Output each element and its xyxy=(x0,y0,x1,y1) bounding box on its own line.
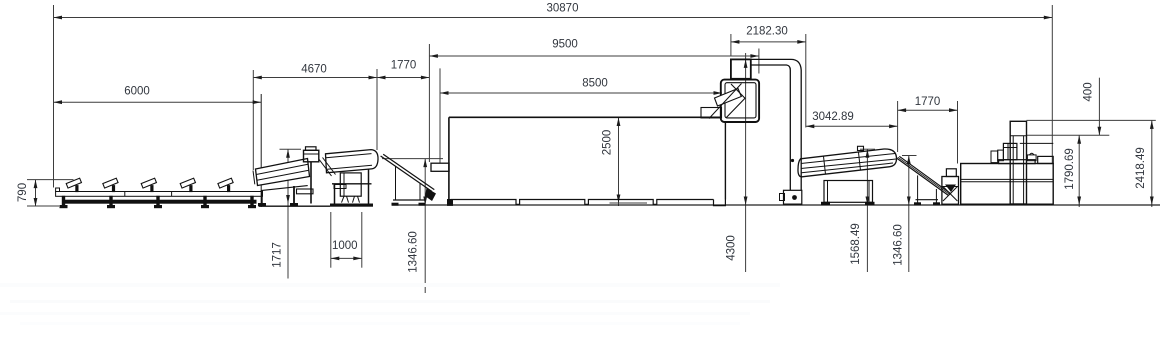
extruder frame rail xyxy=(332,183,372,185)
extension shared 4670/1770 xyxy=(376,69,378,150)
dimension 30870 overall length xyxy=(54,17,1053,19)
dryer right wall xyxy=(724,122,726,200)
left conveyor leg 5 xyxy=(251,196,253,205)
svg-text:1346.60: 1346.60 xyxy=(893,224,905,266)
extension 2182 right xyxy=(805,34,807,128)
hopper motor box xyxy=(304,150,319,162)
motor small box left xyxy=(998,150,1004,161)
extruder barrel inner top line xyxy=(326,154,372,158)
belt2 frame rail xyxy=(916,199,939,201)
feeder sloped sub-rail xyxy=(261,186,308,191)
feeder belt inner line 2 xyxy=(256,164,308,174)
tick 1717 top xyxy=(280,148,302,150)
dryer inlet box xyxy=(431,163,449,171)
drum support inner legs xyxy=(827,181,829,203)
duct bottom box xyxy=(784,190,802,204)
svg-text:6000: 6000 xyxy=(124,86,150,98)
output belt line 1 xyxy=(381,156,432,192)
feeder base feet xyxy=(259,204,266,206)
svg-text:1770: 1770 xyxy=(915,96,941,108)
drum feet xyxy=(822,202,830,204)
feeder top bracket tray xyxy=(297,189,314,194)
svg-text:4670: 4670 xyxy=(301,64,327,76)
svg-text:1346.60: 1346.60 xyxy=(408,231,420,273)
hopper motor inner line xyxy=(304,153,319,155)
duct riser xyxy=(731,59,751,78)
chute spout quad xyxy=(715,89,742,107)
left conveyor plate seams xyxy=(124,192,126,197)
extruder barrel xyxy=(326,150,379,173)
extension 2182 left xyxy=(730,34,732,56)
nozzle bracket 3 xyxy=(141,178,156,188)
feeder base rail xyxy=(259,205,330,207)
nozzle bracket 1 xyxy=(66,178,81,188)
output belt line 2 xyxy=(383,154,434,189)
dimension 400 xyxy=(1098,78,1100,136)
extruder frame leg left xyxy=(334,184,336,204)
tick 2500 bottom xyxy=(610,202,648,204)
output belt frame rail xyxy=(393,199,425,201)
svg-text:1790.69: 1790.69 xyxy=(1064,148,1076,190)
svg-text:1000: 1000 xyxy=(332,240,358,252)
right small motor dome xyxy=(1030,153,1035,155)
hopper motor box top xyxy=(306,147,317,151)
output belt discharge head dark xyxy=(425,188,436,201)
tick 1346a top xyxy=(382,158,443,160)
flavor column xyxy=(1010,121,1026,204)
cooling discharge belt line 2 xyxy=(899,156,951,194)
extension 8500 left xyxy=(439,68,441,163)
extension 4670 left xyxy=(252,70,254,170)
svg-text:1568.49: 1568.49 xyxy=(850,223,862,265)
cabinet foot left xyxy=(342,196,349,202)
cooling discharge belt hatch xyxy=(898,157,950,194)
output belt frame vline 2 xyxy=(419,183,421,200)
elevator2 inner hline xyxy=(942,186,959,188)
nozzle bracket 2 xyxy=(103,178,118,188)
hopper support pole xyxy=(310,162,312,204)
left conveyor bottom rail thick xyxy=(63,200,256,203)
duct sensor dot xyxy=(791,159,794,162)
drum seam 2 xyxy=(859,153,861,171)
duct bottom dot xyxy=(792,195,797,200)
elevator2 box xyxy=(942,177,959,205)
dimension 1568.49 xyxy=(866,149,868,272)
cabinet foot right xyxy=(353,196,360,202)
drum top small box xyxy=(858,146,864,150)
dimension 2418.49 xyxy=(1151,120,1153,207)
duct bottom small flange xyxy=(780,194,785,201)
dimension 1000 xyxy=(330,212,332,268)
nozzle bracket 5 xyxy=(218,178,233,188)
svg-text:3042.89: 3042.89 xyxy=(812,111,854,123)
left conveyor leg 1 xyxy=(62,196,64,205)
drum inner line 1 xyxy=(801,154,895,164)
extension 1770/9500 xyxy=(428,44,430,162)
feeder belt inner line xyxy=(257,170,309,180)
elevator2 X brace xyxy=(943,187,957,202)
hopper chute brace 1 xyxy=(319,159,332,176)
extension 6000 right xyxy=(260,94,262,207)
dimension 1790.69 xyxy=(1078,135,1080,207)
dimension 1346.60 first xyxy=(424,159,426,293)
drum inner line 3 xyxy=(802,163,894,173)
elevator head inner box xyxy=(725,83,756,118)
svg-text:2418.49: 2418.49 xyxy=(1135,147,1147,189)
feeder belt body xyxy=(256,159,310,186)
left conveyor leg 2 xyxy=(110,196,112,205)
svg-text:2500: 2500 xyxy=(602,130,614,156)
dimension 2182.30 duct run xyxy=(731,41,806,43)
svg-text:1717: 1717 xyxy=(272,242,284,268)
left conveyor leg 4 xyxy=(204,196,206,205)
dryer bottom with feet xyxy=(451,200,714,205)
dimension 1770 first xyxy=(377,77,429,79)
dimension 4300 duct height xyxy=(745,53,747,272)
extension 790 top xyxy=(27,179,74,181)
elevator2 inlet dark xyxy=(945,185,956,193)
dryer top xyxy=(449,116,722,118)
extension 790 bottom xyxy=(27,205,59,207)
chute zigzag xyxy=(726,84,745,118)
cooling discharge belt line 1 xyxy=(897,158,949,196)
dimension 790 xyxy=(35,180,37,207)
cabinet inner vline xyxy=(343,173,345,196)
extension 1770b right xyxy=(957,101,959,164)
faint background streaks xyxy=(0,283,780,287)
tick 1346b top xyxy=(902,155,917,157)
dimension 2500 dryer height xyxy=(618,118,620,207)
extension 3042 right xyxy=(897,101,899,152)
extension line B column joint xyxy=(1027,134,1110,136)
flavor top right sub-box xyxy=(1038,156,1054,163)
drum support frame xyxy=(824,181,873,203)
elevator head outer box xyxy=(721,80,759,122)
extruder barrel inner bottom line xyxy=(327,165,372,169)
output belt feet xyxy=(392,203,398,205)
svg-text:790: 790 xyxy=(17,183,29,202)
extension line left overall xyxy=(53,5,55,188)
tick 9500 right xyxy=(758,49,760,74)
belt2 frame vline 2 xyxy=(935,189,937,203)
drum body xyxy=(798,149,897,177)
dryer right foot xyxy=(714,200,726,206)
dimension 8500 xyxy=(440,92,722,94)
dimension 1346.60 second xyxy=(908,156,910,273)
flavor body xyxy=(961,164,1053,205)
left conveyor top plate xyxy=(56,192,263,197)
flavor column inner walls xyxy=(1012,136,1014,204)
extension line right overall xyxy=(1051,5,1053,164)
feeder leg 2 xyxy=(293,186,295,205)
motor body inner xyxy=(1007,143,1009,159)
ground line xyxy=(392,204,1160,206)
belt2 frame vline 1 xyxy=(917,175,919,203)
dryer left wall xyxy=(448,117,450,205)
elevator2 top cap xyxy=(946,169,956,177)
svg-text:4300: 4300 xyxy=(726,235,738,261)
dimension 1717 xyxy=(287,149,289,278)
svg-text:2182.30: 2182.30 xyxy=(746,26,788,38)
svg-text:30870: 30870 xyxy=(547,3,579,15)
nozzle bracket 4 xyxy=(180,178,195,188)
motor body xyxy=(1003,143,1017,159)
drum inner line 2 xyxy=(801,159,896,169)
duct horizontal top xyxy=(751,59,801,190)
dimension 4670 xyxy=(253,77,377,79)
svg-text:8500: 8500 xyxy=(582,78,608,90)
svg-text:400: 400 xyxy=(1083,82,1095,101)
hopper chute brace 2 xyxy=(323,158,336,175)
chute long diagonal xyxy=(709,84,742,119)
extruder frame leg right xyxy=(368,169,370,204)
chute step rect xyxy=(701,108,722,118)
dimension 1770 second xyxy=(898,109,958,111)
extruder base rail xyxy=(331,204,373,206)
dimension 9500 xyxy=(429,55,759,57)
extruder cabinet xyxy=(340,173,361,196)
flavor body hline 1 xyxy=(961,178,1053,180)
left conveyor left end cap xyxy=(56,188,60,192)
right small motor xyxy=(1027,155,1036,161)
handrail line xyxy=(1020,142,1054,144)
left conveyor leg 3 xyxy=(157,196,159,205)
dryer left foot xyxy=(448,200,453,206)
belt2 feet xyxy=(915,203,921,205)
output belt frame vline 1 xyxy=(395,166,397,200)
svg-text:9500: 9500 xyxy=(552,39,578,51)
tick 1568 top xyxy=(860,148,875,150)
dimension 3042.89 xyxy=(806,125,898,127)
motor base plate xyxy=(999,160,1036,164)
feeder left end cap xyxy=(253,171,255,185)
feeder leg 1 xyxy=(261,190,263,205)
flavor column joint xyxy=(1010,135,1026,137)
flavor body hline 2 xyxy=(961,181,1053,183)
motor small box far left xyxy=(991,151,998,163)
drum seam 1 xyxy=(824,156,826,174)
small pump box xyxy=(334,185,346,189)
extension line A column top xyxy=(1027,119,1156,121)
svg-text:1770: 1770 xyxy=(391,60,417,72)
duct horizontal bottom xyxy=(751,65,791,190)
dimension 6000 xyxy=(54,101,262,103)
